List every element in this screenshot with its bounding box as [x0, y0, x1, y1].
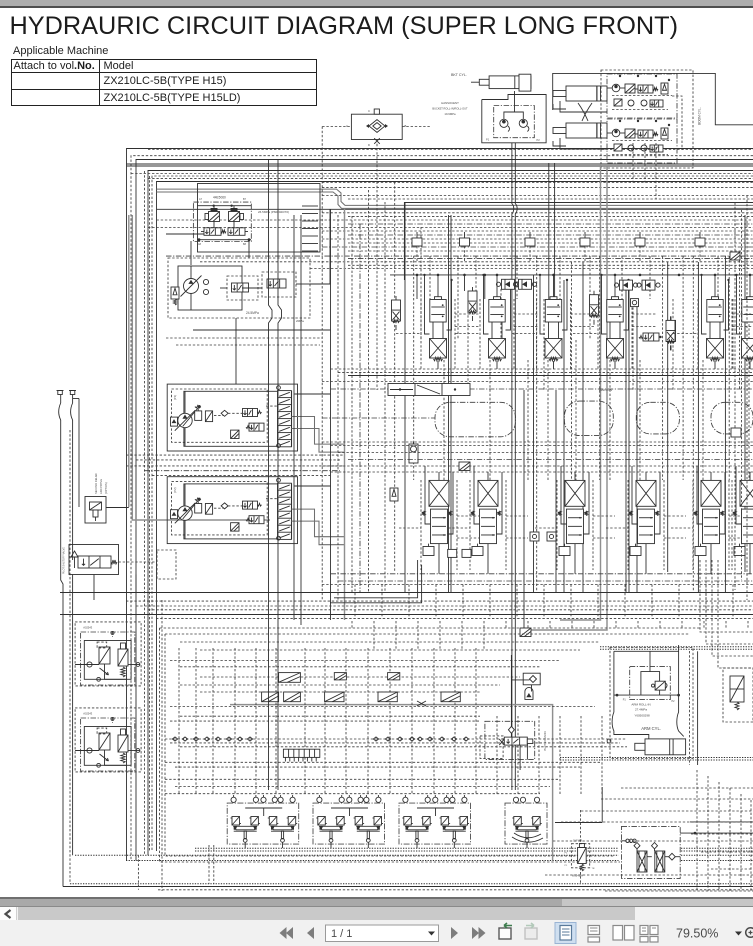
control valve bot 6 body [742, 509, 753, 543]
wire frame outer [127, 149, 753, 861]
control valve bot 2 X [478, 480, 498, 506]
aux relief valve 1 [118, 649, 128, 666]
top gray bar [0, 0, 753, 6]
next view icon [525, 923, 537, 939]
wire cv bot 1 dash legs [420, 480, 422, 570]
svg-text:P1: P1 [565, 865, 568, 867]
wire bus y182d [322, 182, 753, 184]
arm inner dashdot [630, 667, 671, 700]
wire stitch2 8 [505, 621, 507, 628]
pump spool P2a [243, 501, 258, 509]
wire stitch 15 [732, 585, 734, 619]
wire left cross [73, 398, 79, 400]
wire jumper bot 4b [606, 527, 628, 529]
wire cv bot 3 dash legs [556, 480, 558, 570]
wire bc v3 [212, 648, 214, 795]
wire arm far right [697, 651, 699, 765]
filter diamond 1 [634, 843, 640, 849]
svg-text:79.50%: 79.50% [676, 927, 718, 941]
wire mid sep 3 [338, 452, 753, 454]
bot small rect 1 [448, 549, 457, 557]
boom relief 1 [661, 83, 668, 94]
wire shuttle col dashed [321, 127, 323, 601]
wire pilot drop [235, 318, 237, 330]
control valve bot 6 X [740, 480, 753, 506]
wire bc v7 [304, 648, 306, 795]
wire jumper bot 2c [506, 537, 528, 539]
wire cascade 8 [711, 868, 753, 870]
wire control valve bot 2 [487, 544, 489, 574]
wire boom stub 2 [644, 143, 646, 183]
wire cascade v2 [707, 776, 709, 891]
pump spool P1b [249, 423, 264, 431]
wire bus y224 [348, 223, 753, 225]
bot small rect 2 [462, 549, 471, 557]
wire bc v9 [345, 648, 347, 795]
pilot cap 1 [412, 238, 422, 246]
svg-text:A02543: A02543 [83, 626, 93, 630]
svg-text:C: C [368, 109, 370, 113]
wire jumper top 3c [512, 333, 537, 335]
wire bottom v1 [137, 855, 139, 890]
wire jumper bot 4a [664, 515, 686, 517]
wire cv bot 1 side legs [424, 466, 426, 520]
control valve top 6 spring [746, 357, 753, 361]
svg-text:2MPa: 2MPa [296, 319, 304, 323]
control valve bot 3 body [567, 509, 584, 543]
wire bc h 747 [180, 746, 627, 748]
svg-text:MAIN C/V: MAIN C/V [599, 388, 612, 392]
pump diamond P1 [221, 410, 228, 416]
wire bus y235 [348, 234, 753, 236]
wire bc h 634 [165, 633, 690, 635]
wire main bus [390, 274, 753, 276]
control valve top 1 spring [434, 357, 443, 361]
aux relief inner dashdot 1 [81, 632, 135, 685]
wire cv top 5 side legs [701, 275, 703, 330]
wire arm left [612, 651, 649, 739]
wire stitch 4 [435, 585, 437, 619]
svg-text:(P2): (P2) [173, 487, 177, 492]
wire bc v17 [517, 716, 519, 795]
wire bc v20 [580, 716, 582, 795]
bottom enclosure dashed [160, 628, 621, 862]
aux relief solid box 1 [84, 641, 131, 680]
wire pump stem [190, 266, 192, 279]
wire jumper top 1a [455, 313, 480, 315]
machine table [11, 59, 317, 107]
wire pilot group 1 [245, 807, 282, 809]
wire pump out 1 [295, 393, 331, 395]
control valve bot 2 springs [471, 511, 474, 516]
wire arm pi [641, 672, 660, 696]
wire aux links 1 [105, 664, 127, 679]
wire vb dash v4 [443, 360, 445, 480]
boom hose cross a [578, 103, 588, 121]
oil filter 1 [637, 851, 647, 872]
pilot valve A dashed [227, 276, 258, 300]
aux relief solid box 2 [84, 727, 131, 766]
wire bc h 716 [180, 715, 480, 717]
svg-text:PILOT SHUTOFF VALVE: PILOT SHUTOFF VALVE [63, 547, 66, 574]
pump tower P1a [195, 411, 202, 421]
wire bottom bus 3 [75, 854, 619, 856]
wire control valve bot 5 [710, 544, 712, 574]
zoom dropdown arrow [735, 932, 742, 936]
boom glyph dots 2 [619, 120, 621, 122]
wire stitch2 2 [373, 621, 375, 650]
wire vb bus 4 [60, 592, 753, 594]
wire bottom bus 1 [195, 847, 619, 849]
wire bucket drop B [515, 143, 517, 790]
boom rod bracket 1 [553, 104, 566, 109]
wire pump gray out P2b [291, 521, 344, 545]
wire slf solid [601, 787, 603, 823]
pilot check 3 [620, 280, 633, 290]
scrollbar row [0, 906, 753, 921]
next page button [451, 927, 458, 939]
pump sol P2 [231, 523, 239, 531]
control valve top 4 cap [612, 297, 619, 300]
work port oval 3 [636, 402, 679, 434]
pump swash P2 [183, 499, 200, 519]
applicable machine label [13, 45, 108, 57]
wire cv top 3 dash legs [536, 299, 538, 369]
wire boom 1 [607, 87, 612, 89]
pump comb P2 [278, 483, 292, 539]
wire cascade v4 [729, 788, 731, 891]
wire bc h 667 [180, 666, 540, 668]
pilot unit 1b [269, 817, 277, 826]
wire jumper top 1b [455, 326, 480, 328]
scrollbar thumb [18, 907, 635, 920]
control valve bot 1 body [431, 509, 448, 543]
wire slf [580, 810, 582, 844]
wire bc h 706 [170, 706, 595, 708]
wire gray center b [520, 166, 607, 630]
svg-text:A7: A7 [199, 198, 203, 201]
arm cylinder [645, 739, 686, 755]
pump comb P1 [278, 391, 292, 447]
wire bottom bus 5 [70, 883, 753, 885]
svg-text:P1: P1 [623, 699, 627, 702]
wire vb solid v8 [533, 275, 535, 593]
wire vb dash v28 [692, 256, 694, 592]
wire vb solid v17 [724, 256, 726, 593]
wire bc v8 [324, 648, 326, 795]
wire bc v19 [559, 716, 561, 795]
comb component [283, 749, 319, 757]
wire jumper bot 2b [448, 527, 470, 529]
wire vb bus 7 [148, 609, 753, 611]
continuous view icon [588, 926, 600, 943]
boom subglyph 2b [650, 145, 663, 152]
wire vb corner a [334, 560, 418, 598]
wire cv top 3 side legs [539, 275, 541, 330]
wire jumper top 1c [396, 333, 421, 335]
boom check 2 [612, 129, 620, 137]
wire frame 4 [157, 182, 753, 852]
pedal circles [513, 797, 518, 802]
wire bus y220 [157, 219, 753, 221]
svg-text:B8: B8 [243, 243, 247, 246]
pilot unit inner box [178, 266, 242, 310]
pump circle P1 [178, 413, 192, 427]
wire pilot group 3 [417, 807, 454, 809]
wire cv top 1 dash legs [420, 299, 422, 369]
aux relief outer dashed 2 [75, 708, 141, 772]
wire control valve top 4 [614, 275, 616, 297]
wire bus y258 [348, 257, 753, 259]
bc sol 1 [279, 673, 301, 683]
wire right col v1 [734, 203, 736, 591]
wire cv bot 6 dash legs [731, 480, 733, 570]
wire vb dash v2 [420, 227, 422, 340]
wire bc v4 [234, 648, 236, 795]
wire bus y166 [127, 165, 753, 167]
wire vb left 5 [368, 190, 370, 592]
wire pump link [310, 209, 330, 284]
bc sol 4 [262, 692, 279, 702]
wire cascade 3 [581, 810, 753, 812]
svg-text:HANSOCENT: HANSOCENT [441, 101, 459, 105]
toolbar [0, 920, 753, 946]
svg-text:W254294: W254294 [572, 874, 584, 878]
wire arm T [649, 651, 651, 671]
svg-text:SECOND RELIEF: SECOND RELIEF [94, 473, 98, 494]
filter circles [626, 839, 629, 842]
wire vb solid v15 [667, 262, 669, 572]
wire mid h3 [176, 344, 320, 346]
wire pump out 2 [295, 485, 331, 487]
pump diamond P2 [221, 503, 228, 509]
wire jumper bot 5b [671, 527, 693, 529]
wire vb dash v27 [682, 256, 684, 480]
pilot shutoff dashed [157, 550, 176, 579]
wire vb left 8 [394, 182, 396, 572]
wire left drop 2 [72, 395, 74, 404]
wire vb dash v11 [527, 360, 529, 480]
wire bus y251 [348, 250, 753, 252]
wire stitch 3 [408, 585, 410, 619]
boom spool 2 [638, 130, 653, 138]
wire bc h 685 [180, 684, 500, 686]
relief stack 3 [590, 295, 599, 316]
wire cv bot 2 dash legs [469, 480, 471, 570]
wire stitch 2 [381, 585, 383, 619]
two page scroll icon [640, 926, 658, 943]
wire pilot feet 1 [244, 843, 246, 849]
prev page button [307, 927, 314, 939]
control valve top 2 body [489, 300, 505, 323]
solenoid valve SV2 [229, 212, 240, 222]
pilot group circles 3 [403, 797, 408, 802]
bucket holding valve box [482, 95, 546, 143]
wire vb dash v18 [589, 256, 591, 340]
wire vb dash v16 [571, 262, 573, 480]
wire vb solid v3 [448, 215, 450, 593]
wire stitch2 12 [593, 621, 595, 628]
bucket valve inner dashed [494, 106, 535, 138]
wire bc v21 [601, 716, 603, 795]
wire row sep 1 [331, 368, 753, 370]
wire vb solid v10 [563, 280, 565, 593]
boom cylinder 1 [566, 86, 607, 101]
control valve bot 1 springs [422, 511, 425, 516]
wire jumper bot 2a [506, 515, 528, 517]
wire pump gray out P1b [291, 429, 344, 453]
pilot unit dashed box [168, 258, 310, 318]
wire vb dash v21 [621, 256, 623, 299]
wire cv bot 4 side legs [631, 466, 633, 520]
wire control valve bot 3 [574, 544, 576, 574]
spool SP2 [228, 228, 245, 236]
wire bus y149 dashed [148, 148, 753, 150]
boom subglyph 1b [650, 100, 663, 107]
viewer bottom band [0, 897, 753, 899]
wire vb solid v14 [636, 306, 638, 593]
wire cascade v3 [718, 782, 720, 891]
arm cyl dashed box [610, 648, 693, 759]
wire jumper top 4b [632, 326, 657, 328]
wire mid h2 [166, 337, 322, 339]
wire pump gray out P1a [291, 417, 344, 445]
boom dash inner 1 [612, 95, 672, 97]
wire boom stub 1 [632, 143, 634, 183]
wire stitch2 10 [549, 621, 551, 628]
wire bus y231 [322, 230, 753, 232]
check diamond sw [508, 726, 514, 733]
wire pair mid b [278, 160, 282, 790]
wire mid sep 4 [348, 459, 753, 461]
wire bc h 660 [170, 660, 560, 662]
wire vb dash v6 [467, 311, 469, 390]
relief valve RV0 [171, 287, 179, 299]
wire vb solid v9 [555, 390, 557, 593]
pilot shutoff spool [78, 556, 111, 568]
control valve top 6 body [742, 300, 753, 323]
wire bc h 628 [160, 627, 701, 629]
wire jumper bot 3b [535, 527, 557, 529]
relief stack 1 [392, 300, 401, 321]
wire cv top 6 side legs [736, 275, 738, 330]
wire bus gray step b [157, 192, 753, 208]
control valve bot 5 springs [694, 511, 697, 516]
wire frame dash c [144, 171, 146, 855]
wire mid sep 6 [331, 471, 753, 473]
svg-text:26.5MPa (P600020/70): 26.5MPa (P600020/70) [258, 210, 289, 214]
wire sw links [531, 685, 533, 692]
relief stack 2 [468, 291, 477, 312]
pilot valve group box 3 [399, 803, 471, 844]
wire cascade 2 [601, 798, 753, 800]
bc sol 7 [378, 692, 397, 702]
page number box [326, 925, 439, 942]
wire bc h 779 [165, 778, 560, 780]
control valve top 1 body [430, 300, 446, 323]
wire jumper bot 5c [729, 537, 751, 539]
svg-text:D: D [368, 143, 370, 147]
boom hose cross b [582, 103, 592, 121]
glyph nb 1 [459, 462, 470, 471]
control valve top 4 body [607, 300, 623, 323]
wire vb left 3 [351, 216, 353, 592]
pump sub P2 [171, 510, 178, 519]
wire manifold left [166, 233, 204, 235]
wire stitch2 14 [637, 621, 639, 628]
wire boom stub 3 [655, 143, 657, 199]
wire vb solid v12 [625, 280, 627, 593]
wire cv top 2 side legs [483, 275, 485, 330]
wire bottom bus 2 [195, 850, 619, 852]
wire bus y195 [322, 195, 753, 197]
svg-text:ADD PIPING: ADD PIPING [99, 479, 103, 494]
wire vb dash v31 [728, 256, 730, 480]
svg-text:(OPTION): (OPTION) [104, 482, 108, 494]
junction cv top 6 [735, 274, 737, 276]
control valve bot 6 check [734, 547, 745, 556]
pilot group circles 2 [317, 797, 322, 802]
wire bc v12 [411, 648, 413, 795]
wire right corner 1 [700, 560, 753, 632]
wire bus y262 [200, 261, 753, 263]
wire bc h 794 [165, 793, 540, 795]
svg-text:BOOM CYL.: BOOM CYL. [698, 107, 702, 125]
control valve top 4 legs [609, 322, 611, 339]
wire pump in P2 [184, 484, 186, 506]
svg-text:1 / 1: 1 / 1 [331, 928, 352, 940]
wire manifold links [213, 222, 215, 228]
shuttle diamond [369, 120, 385, 133]
wire jumper bot 4c [664, 537, 686, 539]
pump sub P1 [171, 417, 178, 426]
wire vb dash v8 [489, 360, 491, 480]
control valve bot 2 body [480, 509, 497, 543]
wire mid sep 1 [322, 441, 753, 443]
wire right col v3 [746, 196, 748, 601]
wire vb dash v9 [500, 289, 502, 340]
wire shuttle right dashed [402, 126, 430, 128]
wire cascade 10 [605, 890, 753, 892]
wire manifold bus2 [197, 239, 251, 241]
wire stitch2 16 [681, 621, 683, 628]
mid spool glyph [643, 333, 659, 341]
pilot group stubs 1 [233, 795, 235, 797]
wire cascade 6 [553, 840, 753, 842]
wire bus y265 [348, 264, 753, 266]
control valve bot 2 check [472, 547, 483, 556]
control valve bot 3 springs [558, 511, 561, 516]
wire stitch2 19 [747, 621, 749, 628]
pump sol P1 [231, 430, 239, 438]
wire stitch2 17 [703, 621, 705, 628]
wire gray vb left [344, 209, 346, 621]
wire second relief [106, 507, 129, 509]
wire jumper top 3a [571, 313, 596, 315]
wire stitch 1 [354, 585, 356, 619]
wire vb corner b [330, 565, 422, 603]
svg-text:P2: P2 [565, 853, 568, 855]
boom valve dashed 1 [607, 74, 677, 118]
pedal unit [514, 817, 522, 826]
wire bus y164a [127, 163, 753, 165]
wire stitch2 6 [461, 621, 463, 650]
wire row sep 4 [322, 381, 753, 383]
wire jumper top 4c [573, 333, 598, 335]
pedal unit box [505, 803, 547, 844]
wire vb dash v24 [649, 256, 651, 299]
wire bc h 762 [165, 761, 600, 763]
